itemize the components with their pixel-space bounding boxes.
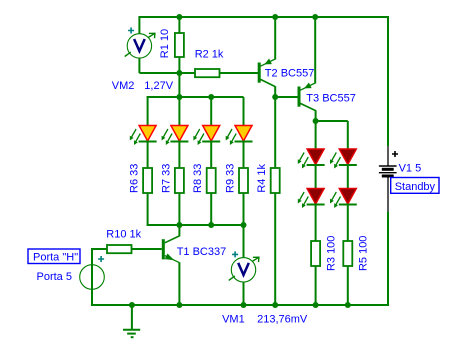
node top rail / R1 bbox=[176, 14, 182, 20]
resistor R3 bbox=[311, 205, 320, 306]
resistor R9 bbox=[239, 142, 248, 226]
node bottom rail / R3 bbox=[313, 302, 319, 308]
node bottom rail / R4 bbox=[272, 302, 278, 308]
svg-text:R10 1k: R10 1k bbox=[106, 229, 141, 241]
svg-text:V1 5: V1 5 bbox=[399, 163, 422, 175]
wire bottom rail bbox=[91, 304, 389, 306]
transistor T2 bbox=[259, 17, 275, 97]
svg-text:213,76mV: 213,76mV bbox=[257, 314, 308, 326]
LED D5 (red, col A row 1) bbox=[298, 121, 325, 169]
resistor R4 bbox=[271, 97, 280, 305]
svg-text:R2 1k: R2 1k bbox=[195, 49, 224, 61]
battery V1 bbox=[379, 146, 398, 212]
wire cathode rail bbox=[147, 224, 244, 226]
wire node B to T3 base bbox=[275, 96, 297, 98]
LED D6 (red, col B row 1) bbox=[330, 121, 357, 169]
node rail/R9/VM1 bbox=[241, 222, 247, 228]
node feed/LED3 bbox=[208, 94, 214, 100]
voltmeter VM2 bbox=[125, 17, 155, 73]
wire top rail bbox=[138, 16, 389, 18]
wire VM2 to node bbox=[139, 72, 179, 74]
resistor R2 bbox=[179, 69, 258, 77]
svg-text:T2 BC557: T2 BC557 bbox=[265, 68, 315, 80]
LED D7 (red, col A row 2) bbox=[298, 165, 325, 208]
svg-text:R4 1k: R4 1k bbox=[256, 163, 268, 192]
resistor R1 bbox=[175, 17, 184, 73]
svg-text:Porta "H": Porta "H" bbox=[33, 252, 78, 264]
node bottom rail / R5 bbox=[345, 302, 351, 308]
LED D8 (red, col B row 2) bbox=[330, 165, 357, 208]
resistor R5 bbox=[343, 205, 352, 306]
node rail/R7/T1 collector bbox=[176, 222, 182, 228]
voltmeter VM1 bbox=[229, 225, 259, 305]
svg-text:1,27V: 1,27V bbox=[144, 80, 173, 92]
node top rail / T2 emitter bbox=[272, 14, 278, 20]
LED D4 (yellow) bbox=[226, 97, 253, 145]
node bottom rail / T1 emitter bbox=[176, 302, 182, 308]
node top rail / T3 emitter bbox=[312, 14, 318, 20]
voltage source Porta 5 bbox=[80, 248, 105, 305]
label box Porta "H" bbox=[28, 249, 80, 264]
svg-text:R1 10: R1 10 bbox=[159, 29, 171, 58]
wire node A down bbox=[178, 73, 180, 97]
node A (R1/R2/VM2) bbox=[176, 70, 182, 76]
svg-text:R8 33: R8 33 bbox=[192, 164, 204, 193]
svg-text:T1 BC337: T1 BC337 bbox=[177, 246, 227, 258]
transistor T1 bbox=[132, 225, 180, 305]
svg-text:R7 33: R7 33 bbox=[160, 164, 172, 193]
label box Standby bbox=[391, 178, 439, 194]
svg-text:T3 BC557: T3 BC557 bbox=[306, 93, 356, 105]
node bottom rail / VM1 bbox=[241, 302, 247, 308]
wire LED feed rail bbox=[147, 96, 244, 98]
node split red LEDs bbox=[313, 118, 319, 124]
svg-text:VM1: VM1 bbox=[222, 314, 245, 326]
LED D3 (yellow) bbox=[193, 97, 220, 145]
svg-text:R6 33: R6 33 bbox=[129, 164, 141, 193]
resistor R10 bbox=[92, 245, 132, 253]
wire right rail upper (green) bbox=[387, 16, 389, 146]
node feed/LED2 bbox=[176, 94, 182, 100]
transistor T3 bbox=[299, 17, 316, 121]
resistor R6 bbox=[143, 142, 152, 226]
node B (T2 collector / T3 base / R4) bbox=[272, 94, 278, 100]
svg-text:R3 100: R3 100 bbox=[326, 236, 338, 271]
resistor R8 bbox=[207, 142, 216, 226]
svg-text:Standby: Standby bbox=[395, 181, 436, 193]
ground bbox=[123, 305, 140, 337]
resistor R7 bbox=[175, 142, 184, 226]
node rail/R8 bbox=[208, 222, 214, 228]
wire right rail lower (green) bbox=[387, 212, 389, 306]
svg-text:VM2: VM2 bbox=[112, 80, 135, 92]
wire split to column B bbox=[316, 120, 348, 122]
node bottom rail / ground bbox=[129, 302, 135, 308]
LED D2 (yellow) bbox=[162, 97, 189, 145]
LED D1 (yellow) bbox=[130, 96, 157, 145]
svg-text:R5 100: R5 100 bbox=[358, 236, 370, 271]
svg-text:R9 33: R9 33 bbox=[224, 164, 236, 193]
svg-text:Porta 5: Porta 5 bbox=[37, 271, 72, 283]
